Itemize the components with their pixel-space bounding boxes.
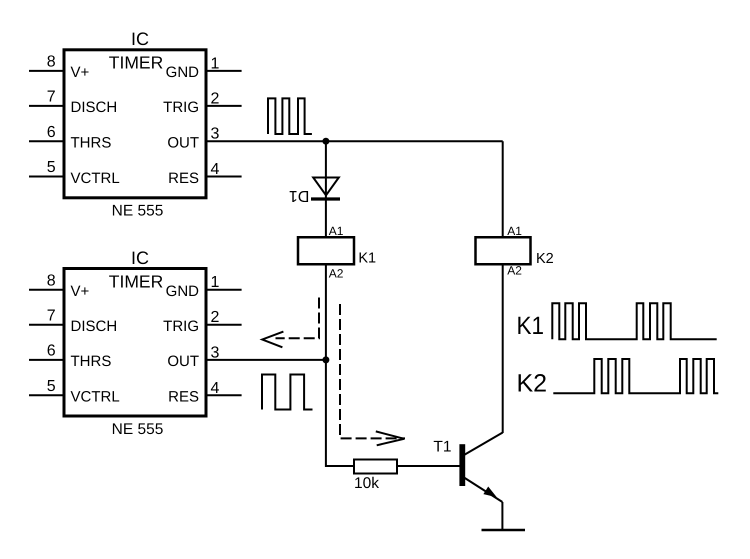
- svg-text:IC: IC: [131, 29, 149, 49]
- pin 5 VCTRL (U1): [29, 159, 120, 187]
- transistor T1: [433, 433, 502, 503]
- pin 8 V+ (U2): [29, 272, 90, 300]
- pin 4 RES (U1): [168, 161, 241, 187]
- svg-text:DISCH: DISCH: [71, 318, 118, 335]
- diode D1: [289, 178, 340, 205]
- pin 3 OUT (U2): [167, 344, 219, 370]
- pin 1 GND (U2): [166, 274, 242, 300]
- wire K1 A2 down to node 2: [325, 265, 327, 360]
- svg-text:OUT: OUT: [167, 353, 199, 370]
- wire resistor to base: [397, 465, 460, 467]
- pin 2 TRIG (U2): [163, 309, 241, 335]
- svg-text:A2: A2: [507, 264, 522, 278]
- svg-text:A2: A2: [329, 267, 344, 281]
- svg-text:8: 8: [47, 272, 56, 289]
- svg-text:NE 555: NE 555: [112, 421, 164, 438]
- svg-text:2: 2: [211, 90, 220, 107]
- pin 7 DISCH (U2): [29, 307, 117, 335]
- svg-text:5: 5: [47, 159, 56, 176]
- svg-text:V+: V+: [71, 283, 90, 300]
- svg-text:K2: K2: [517, 369, 548, 397]
- svg-text:THRS: THRS: [71, 353, 112, 370]
- waveform K1 (bursts): [552, 303, 716, 339]
- op-amp U1 (555 timer IC box): [64, 50, 206, 198]
- svg-text:V+: V+: [71, 64, 90, 81]
- svg-text:5: 5: [47, 378, 56, 395]
- svg-text:3: 3: [211, 126, 220, 143]
- wire OUT U1 to K2 branch (horizontal): [207, 140, 503, 142]
- node junction dot 2: [322, 356, 329, 363]
- dashed action arrow to U2 (left-pointing): [262, 298, 319, 348]
- pin 2 TRIG (U1): [163, 90, 241, 116]
- svg-text:VCTRL: VCTRL: [71, 170, 120, 187]
- svg-text:IC: IC: [131, 248, 149, 268]
- svg-text:8: 8: [47, 54, 56, 71]
- svg-text:10k: 10k: [354, 475, 379, 492]
- wire K2 A2 to collector: [502, 265, 504, 434]
- dashed action arrow to T1 (right-pointing): [340, 304, 405, 445]
- node junction dot 1: [322, 138, 329, 145]
- svg-text:K1: K1: [517, 312, 545, 340]
- pin 6 THRS (U1): [29, 124, 111, 152]
- svg-text:TIMER: TIMER: [109, 53, 163, 73]
- resistor 10k: [354, 460, 397, 493]
- svg-text:A1: A1: [329, 224, 344, 238]
- svg-text:VCTRL: VCTRL: [71, 389, 120, 406]
- pin 6 THRS (U2): [29, 343, 111, 371]
- wire junction to diode/K1: [325, 141, 327, 237]
- pin 7 DISCH (U1): [29, 89, 117, 117]
- svg-text:7: 7: [47, 89, 56, 106]
- pin 4 RES (U2): [168, 380, 241, 406]
- pin 5 VCTRL (U2): [29, 378, 120, 406]
- relay coil K2: [476, 224, 554, 278]
- svg-text:TIMER: TIMER: [109, 271, 163, 291]
- svg-text:4: 4: [211, 161, 220, 178]
- svg-text:THRS: THRS: [71, 135, 112, 152]
- waveform at U2 OUT (2 wide pulses): [262, 375, 313, 410]
- svg-text:TRIG: TRIG: [163, 318, 199, 335]
- svg-text:RES: RES: [168, 389, 199, 406]
- pin 3 OUT (U1): [167, 126, 219, 152]
- svg-text:D1: D1: [289, 187, 310, 204]
- svg-text:NE 555: NE 555: [112, 202, 164, 219]
- svg-text:K2: K2: [536, 251, 554, 267]
- pin 8 V+ (U1): [29, 54, 90, 82]
- wire emitter down: [501, 502, 503, 530]
- svg-text:6: 6: [47, 343, 56, 360]
- svg-text:GND: GND: [166, 64, 200, 81]
- wire OUT U2 to node 2: [207, 359, 326, 361]
- svg-text:TRIG: TRIG: [163, 99, 199, 116]
- svg-text:2: 2: [211, 309, 220, 326]
- svg-text:OUT: OUT: [167, 135, 199, 152]
- ground: [482, 529, 526, 532]
- waveform K2 (bursts): [553, 359, 718, 393]
- wire node 2 down to resistor corner: [326, 360, 354, 466]
- svg-text:7: 7: [47, 307, 56, 324]
- pin 1 GND (U1): [166, 55, 242, 81]
- svg-text:3: 3: [211, 344, 220, 361]
- svg-text:A1: A1: [507, 224, 522, 238]
- svg-text:T1: T1: [433, 439, 451, 456]
- op-amp U2 (555 timer IC box): [64, 269, 206, 417]
- svg-text:DISCH: DISCH: [71, 99, 118, 116]
- svg-text:6: 6: [47, 124, 56, 141]
- svg-text:1: 1: [211, 55, 220, 72]
- svg-text:1: 1: [211, 274, 220, 291]
- wire vertical to K2 A1: [502, 141, 504, 237]
- svg-text:GND: GND: [166, 283, 200, 300]
- svg-text:4: 4: [211, 380, 220, 397]
- svg-text:RES: RES: [168, 170, 199, 187]
- svg-text:K1: K1: [358, 250, 376, 266]
- relay coil K1: [298, 224, 376, 281]
- waveform at U1 OUT (3 narrow pulses): [268, 98, 312, 134]
